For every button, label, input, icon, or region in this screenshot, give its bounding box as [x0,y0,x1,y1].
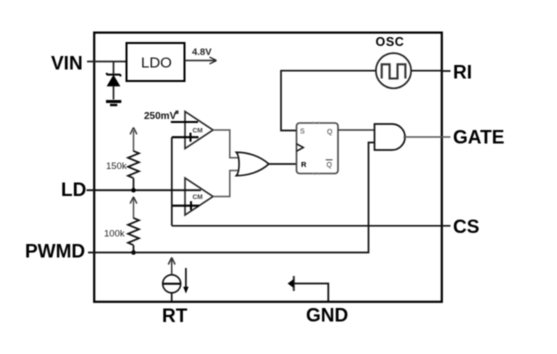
svg-text:VIN: VIN [51,54,83,75]
IC boundary box [94,33,442,302]
svg-text:250mV: 250mV [144,111,177,122]
svg-text:4.8V: 4.8V [192,47,212,58]
wire arrow above 100k resistor [133,198,135,219]
svg-text:CM: CM [193,194,203,201]
wire AND output to GATE pin [404,136,451,138]
svg-text:R: R [301,160,307,169]
clock wedge on flip-flop [297,144,304,151]
svg-text:LD: LD [61,180,86,201]
flip-flop U3 (SR latch) [297,123,339,174]
wire OSC right to RI pin [411,70,450,72]
wire OSC left to flip-flop S [281,71,376,131]
wire CS line to CS pin [172,225,451,227]
CM1 plus input stub [172,205,199,207]
wire PWMD line to AND gate input riser [88,143,375,253]
svg-text:OSC: OSC [376,35,405,49]
wire LD line into CM1 minus [87,189,202,191]
svg-text:RI: RI [453,63,472,84]
OR gate U2 [236,152,268,175]
ground under diode [106,100,121,103]
CM2 minus input stub from 250mV [171,121,198,123]
wire OR output to flip-flop R [269,163,297,165]
svg-text:CS: CS [453,217,479,238]
oscillator OSC circle [376,53,411,88]
ground symbol at GND pin [293,276,295,291]
wire flip-flop Q to AND gate [338,129,375,131]
comparator CM1 (bottom) [185,178,213,215]
svg-text:GND: GND [306,306,348,327]
wire VIN to LDO [87,61,127,63]
wire GND to bottom edge [294,284,329,302]
resistor 100k [128,218,139,245]
wire CM1 output to OR gate bottom input [213,171,241,197]
AND gate U4 [375,124,406,150]
svg-text:S: S [300,129,305,136]
svg-text:LDO: LDO [141,55,172,72]
current source at RT [171,259,173,276]
wire diode riser [113,62,115,74]
junction node at LD line [131,188,136,193]
wire 4.8V output with arrow [185,60,216,62]
svg-text:CM: CM [193,128,203,135]
svg-text:Q: Q [327,162,333,169]
svg-text:GATE: GATE [453,128,504,149]
junction node at PWMD line [131,250,136,255]
comparator CM2 (top) [185,112,213,149]
resistor 150k [128,151,139,178]
LDO block [127,43,185,81]
down arrow beside current source [185,268,187,292]
tick marks on flip-flop edges [313,122,320,175]
wire CM2 output to OR gate top input [213,130,241,158]
svg-text:RT: RT [162,306,188,327]
svg-text:100k: 100k [104,229,125,240]
CM2 plus input stub [172,136,199,138]
svg-text:PWMD: PWMD [25,242,85,263]
zener diode D1 [106,73,121,76]
wire arrow above 150k resistor [133,131,135,152]
svg-text:Q: Q [327,129,333,136]
square wave inside OSC [382,64,406,78]
wire CS riser connecting both plus inputs down to CS line [171,137,173,226]
svg-text:150k: 150k [106,161,127,172]
